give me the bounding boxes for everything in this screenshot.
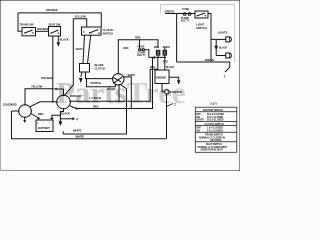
wire solenoid left to bottom line <box>12 110 19 112</box>
svg-text:BLADE: BLADE <box>95 63 104 67</box>
svg-text:FUSE: FUSE <box>138 44 145 48</box>
wire yellow solenoid top <box>25 89 53 105</box>
wire solenoid to battery red <box>31 114 39 119</box>
wire green bottom <box>177 62 230 72</box>
wire lamp row 2 <box>216 55 226 57</box>
wire green top <box>165 13 195 15</box>
svg-text:BLACK: BLACK <box>61 112 70 116</box>
svg-text:BLACK: BLACK <box>219 47 227 50</box>
scan edge bottom <box>0 169 14 171</box>
wire connector branch 4 <box>60 118 72 120</box>
fuse F2 <box>181 7 191 23</box>
ignition switch S4 <box>113 74 124 85</box>
module M2 <box>57 95 71 109</box>
svg-text:YELLOW: YELLOW <box>31 84 43 88</box>
wire black to engine <box>164 57 166 70</box>
fuse F1 <box>137 40 149 58</box>
node lt blue junction <box>118 100 120 102</box>
svg-text:RED: RED <box>154 46 159 49</box>
wire green drop right <box>176 14 178 63</box>
wire solenoid bottom connector <box>24 117 26 120</box>
wire light switch to lamps <box>208 14 211 63</box>
svg-text:YELLOW: YELLOW <box>75 14 87 18</box>
ground engine <box>177 80 181 85</box>
ignition terminal dots <box>112 77 113 78</box>
stub white line1 left <box>62 131 64 134</box>
wire ignition right drop <box>124 77 131 109</box>
wire ignition bottom to lt blue <box>118 85 120 101</box>
wire purple blade clutch to ignition <box>86 72 113 79</box>
svg-text:PURPLE: PURPLE <box>91 81 102 85</box>
wire yellow bracket over clutch switch <box>73 19 86 27</box>
ground lights <box>214 46 218 51</box>
svg-text:AGC TY: AGC TY <box>137 54 146 57</box>
wire ignition bottom diagonal <box>120 84 127 89</box>
svg-text:ORANGE: ORANGE <box>41 76 53 80</box>
wire red ignition top <box>118 40 158 74</box>
svg-text:ON OFF: ON OFF <box>107 88 116 91</box>
trans switch S1 <box>20 23 36 36</box>
svg-text:BLACK: BLACK <box>60 37 69 41</box>
wire solenoid to module <box>30 102 57 107</box>
wire starter down to bottom <box>166 94 168 139</box>
solenoid terminals <box>24 104 26 106</box>
node red module <box>76 108 78 110</box>
diode D2 <box>163 47 166 57</box>
svg-text:4: 4 <box>76 117 79 122</box>
wire left drop to trans switch <box>18 13 22 31</box>
svg-text:+: + <box>37 121 39 125</box>
lamp L1 <box>226 37 232 42</box>
wire engine to starter <box>162 84 165 92</box>
svg-text:BLACK: BLACK <box>166 66 174 69</box>
ground seat switch <box>57 42 61 46</box>
ignition blade interior <box>114 77 122 83</box>
svg-text:AGC TY: AGC TY <box>181 20 190 23</box>
blade clutch K2 <box>80 64 90 73</box>
wire lamp row 1 <box>211 38 226 40</box>
svg-text:RED: RED <box>163 61 168 64</box>
key table <box>195 102 237 152</box>
wire lt blue module to engine <box>70 69 158 101</box>
svg-text:GREEN: GREEN <box>205 58 214 62</box>
starter M1 <box>165 90 169 94</box>
wire mag to engine <box>157 57 159 70</box>
svg-text:RED: RED <box>124 47 129 50</box>
svg-text:RED: RED <box>135 36 141 40</box>
svg-text:STARTER: STARTER <box>170 90 182 94</box>
wire orange top <box>18 13 101 27</box>
svg-text:1: 1 <box>224 74 227 79</box>
svg-text:SOLENOID: SOLENOID <box>3 102 17 106</box>
svg-text:LIGHTS: LIGHTS <box>218 30 228 34</box>
wire orange seat switch down to module <box>52 36 54 102</box>
ground module battery <box>59 121 63 126</box>
connector arrow 4 <box>72 117 75 120</box>
wire orange trans to seat <box>36 30 49 32</box>
svg-text:SEAT SW: SEAT SW <box>49 23 61 27</box>
svg-text:CLUTCH: CLUTCH <box>103 28 114 32</box>
svg-text:OPERATOR IN SEAT: OPERATOR IN SEAT <box>201 149 224 152</box>
svg-text:KEY: KEY <box>211 102 219 106</box>
wire clutch switch to blade clutch right <box>88 35 91 63</box>
border faint harness outline <box>161 5 235 63</box>
engine box <box>155 70 169 84</box>
wire clutch switch to blade clutch left <box>83 35 85 63</box>
wire white bottom long <box>12 111 167 139</box>
svg-text:WHITE: WHITE <box>73 128 82 132</box>
svg-text:WHITE: WHITE <box>163 46 171 49</box>
svg-text:LIGHT: LIGHT <box>196 23 204 27</box>
svg-text:CLUTCH: CLUTCH <box>95 67 106 71</box>
wire blade clutch to ground <box>81 72 82 77</box>
svg-text:ENGINE: ENGINE <box>156 75 166 79</box>
scan edge left <box>0 100 2 171</box>
node orange bus crossing <box>52 88 54 90</box>
wire gray clutch to module <box>65 19 74 95</box>
light switch S5 <box>195 11 208 18</box>
svg-text:RED: RED <box>93 104 99 108</box>
svg-text:WHITE: WHITE <box>76 135 85 139</box>
wire red module bus <box>70 57 153 108</box>
wire battery black <box>52 115 61 120</box>
wire seat switch to ground <box>57 36 59 42</box>
svg-text:SWITCH: SWITCH <box>103 31 113 35</box>
wire module top <box>63 89 65 95</box>
wire lamp vertical black <box>215 39 217 55</box>
node orange module junction <box>52 101 54 103</box>
svg-text:L.T. BLUE: L.T. BLUE <box>89 96 101 100</box>
svg-text:RED: RED <box>38 112 44 116</box>
lamp L2 <box>226 53 232 58</box>
connector solenoid bottom <box>23 120 26 123</box>
seat switch S2 <box>49 23 61 37</box>
svg-text:FUSE: FUSE <box>182 7 189 11</box>
module terminal dots <box>56 101 57 102</box>
terminal tick on bus <box>153 56 155 59</box>
svg-text:−: − <box>49 121 51 125</box>
wire ignition down white <box>63 89 126 134</box>
connector module bus arrow <box>56 88 63 90</box>
svg-text:MODULE: MODULE <box>70 94 82 98</box>
wire purple lower branch <box>87 79 116 87</box>
wire module black down <box>60 109 63 122</box>
svg-text:ORANGE: ORANGE <box>46 8 58 12</box>
diode D1 <box>156 50 159 57</box>
svg-text:GRAY: GRAY <box>76 47 84 51</box>
solenoid K1 <box>19 105 32 118</box>
callout 2 <box>167 104 174 107</box>
svg-text:TRANS SW: TRANS SW <box>20 23 34 27</box>
node red right <box>130 108 132 110</box>
ground blade clutch <box>79 78 83 83</box>
wire diode bus <box>149 56 166 58</box>
svg-text:ORANGE: ORANGE <box>37 27 49 31</box>
svg-text:SWITCH: SWITCH <box>196 26 206 30</box>
clutch switch S3 <box>82 27 102 35</box>
battery BT1 <box>36 118 53 132</box>
node red crossing <box>126 108 128 110</box>
svg-text:BATTERY: BATTERY <box>38 126 50 130</box>
wire engine right to ground <box>169 77 179 80</box>
svg-text:GREEN: GREEN <box>165 9 174 13</box>
